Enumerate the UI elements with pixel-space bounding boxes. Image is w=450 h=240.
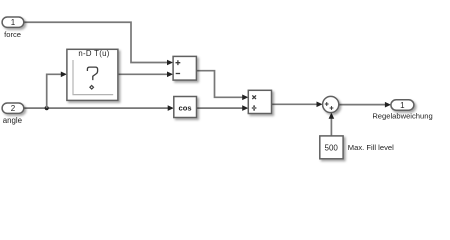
svg-text:cos: cos <box>179 103 192 112</box>
arrowhead into product input1 <box>242 95 248 101</box>
wire: cos output to product input2 <box>197 107 244 109</box>
arrowhead into product input2 <box>242 105 248 111</box>
svg-text:1: 1 <box>11 18 16 27</box>
lookup table diamond dot <box>90 86 94 90</box>
wire: round sum output to outport <box>339 104 386 106</box>
round sum block <box>323 96 339 112</box>
outport 1 block <box>391 100 414 110</box>
product block (x over divide) <box>248 90 271 113</box>
lookup table question mark icon <box>87 67 97 80</box>
cos block <box>174 97 197 118</box>
constant 500 block <box>320 136 343 159</box>
svg-text:angle: angle <box>3 116 23 125</box>
wire: lookup table output to sum input2 <box>118 73 168 75</box>
arrowhead into sum input1 <box>167 60 173 66</box>
n-D lookup table block <box>67 49 118 100</box>
round sum plus left <box>325 102 329 106</box>
wire: sum output to product input1 <box>196 71 243 98</box>
arrowhead into lookup table input <box>61 72 67 78</box>
product x symbol <box>252 95 256 99</box>
lookup table axis <box>73 60 113 95</box>
wire: constant 500 up to round sum bottom <box>330 118 332 136</box>
sum block (square, + -) <box>173 56 196 80</box>
wire: branch from junction up to lookup table input <box>47 74 62 108</box>
svg-text:Regelabweichung: Regelabweichung <box>372 111 432 120</box>
arrowhead into outport <box>385 102 391 108</box>
arrowhead into cos input <box>168 105 174 111</box>
arrowhead into round sum left <box>317 102 323 108</box>
wire: product output to round sum <box>272 103 318 105</box>
svg-text:1: 1 <box>400 101 405 110</box>
svg-text:500: 500 <box>325 143 339 152</box>
wire force: inport1 to sum input1 <box>24 22 168 62</box>
arrowhead up into round sum bottom <box>329 113 335 119</box>
svg-text:n-D T(u): n-D T(u) <box>78 49 109 58</box>
wire angle: inport2 to cos input <box>24 107 169 109</box>
inport 1 block <box>2 17 24 27</box>
sum plus sign <box>176 60 181 65</box>
junction dot on angle wire <box>45 106 49 110</box>
sum minus sign <box>176 73 180 75</box>
round sum plus bottom <box>330 106 334 110</box>
svg-text:force: force <box>4 30 21 39</box>
inport 2 block <box>2 103 24 113</box>
arrowhead into sum input2 <box>167 72 173 78</box>
svg-text:Max. Fill level: Max. Fill level <box>348 143 394 152</box>
product divide symbol <box>252 107 257 109</box>
svg-text:2: 2 <box>11 104 16 113</box>
